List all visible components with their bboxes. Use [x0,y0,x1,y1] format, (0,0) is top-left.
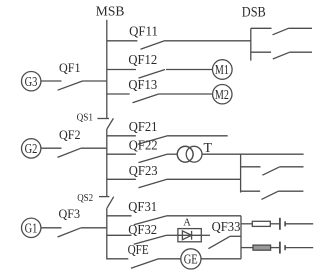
svg-text:QF21: QF21 [129,120,158,135]
breaker QF33 [201,235,241,248]
wire MSB bus segment 3 [107,208,129,259]
breaker QF13 [107,94,213,103]
svg-text:QS1: QS1 [77,111,93,123]
svg-text:QF23: QF23 [129,164,158,179]
svg-text:QF13: QF13 [128,78,157,93]
emergency generator GE [181,249,201,269]
svg-text:QF33: QF33 [212,220,241,235]
wire MSB bus segment 2 [106,129,108,196]
generator G3 [22,72,41,91]
wire transformer secondary bus [240,154,242,192]
svg-text:DSB: DSB [242,5,266,21]
svg-text:QF31: QF31 [128,200,157,215]
breaker QF12 [107,70,213,79]
svg-text:QF2: QF2 [59,127,81,142]
rectifier box with diode [178,229,201,242]
svg-text:QF11: QF11 [129,25,158,40]
breaker QF3 [41,228,107,237]
switch DSB feeder 2 [251,52,312,59]
disconnector QS2 [99,197,114,209]
switch DSB feeder 1 [251,28,312,35]
svg-text:M2: M2 [215,88,229,103]
disconnector QS1 [97,118,113,129]
motor M2 [213,85,232,104]
generator G1 [22,218,41,237]
transformer T [177,146,202,162]
svg-text:QFE: QFE [128,243,149,258]
svg-text:G2: G2 [25,142,38,157]
wire lower-right dc bus [240,216,242,259]
breaker QF1 [41,81,107,90]
breaker QF31 [107,216,241,225]
wire GE to dc bus [201,258,241,260]
svg-text:QS2: QS2 [77,192,93,204]
wire DSB bus [250,28,252,60]
breaker QF23 [107,179,241,188]
breaker QF11 [107,41,251,49]
svg-text:M1: M1 [215,63,229,78]
fuse feeder 2 [241,245,279,250]
breaker QF21 [107,136,228,145]
svg-text:QF32: QF32 [128,223,157,238]
fuse feeder 1 [241,221,279,226]
wire MSB bus segment 1 [106,20,108,119]
svg-text:GE: GE [184,253,198,268]
svg-text:A: A [183,217,191,228]
wire transformer output to right [202,153,304,155]
svg-text:QF12: QF12 [128,53,157,68]
svg-text:G1: G1 [25,221,38,236]
breaker QF2 [41,148,107,157]
svg-text:QF22: QF22 [129,139,158,154]
breaker QF22 [107,154,178,162]
svg-text:MSB: MSB [96,5,125,20]
motor M1 [213,60,233,80]
svg-text:QF1: QF1 [59,60,81,75]
battery contact feeder 1 [280,218,313,230]
switch on secondary bus feeder 1 [241,167,304,175]
breaker QF32 [107,235,178,244]
switch on secondary bus feeder 2 [241,191,304,199]
svg-text:G3: G3 [25,75,38,90]
breaker QFE [131,259,181,268]
generator G2 [22,139,41,158]
battery contact feeder 2 [280,242,313,254]
svg-text:QF3: QF3 [59,206,81,221]
